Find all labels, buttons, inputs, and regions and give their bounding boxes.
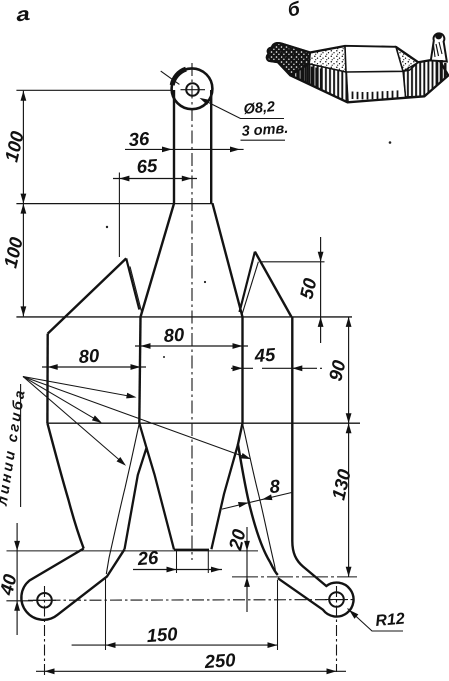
right wing notch fold line — [242, 262, 259, 316]
stray ink specks — [106, 141, 392, 358]
dimension 80 left wing — [42, 364, 146, 370]
left gap cutout right edge — [147, 448, 175, 550]
left foot hole — [33, 593, 56, 608]
flare left edge — [141, 204, 175, 318]
dimension 40 — [6, 523, 33, 635]
dimension text 50 — [295, 275, 320, 300]
dimension text 40 — [0, 571, 21, 597]
left wing long edge — [48, 258, 127, 333]
dimension text 90 — [324, 357, 349, 382]
dimension 50 — [262, 237, 325, 343]
right wing notch edge — [240, 252, 255, 312]
dimension text 26 — [136, 547, 160, 570]
left leg fold line — [106, 423, 139, 574]
sketch front hatched band right — [403, 59, 448, 97]
sketch left stippled panel — [309, 46, 346, 72]
svg-text:26: 26 — [136, 547, 160, 570]
radius callout R12 — [347, 608, 403, 631]
fold lines leader arrows — [23, 377, 252, 468]
view label a — [15, 3, 32, 26]
dimension 250 — [36, 668, 346, 674]
svg-text:45: 45 — [253, 344, 277, 367]
dimension text 80 left — [78, 345, 101, 367]
dimension 26 — [133, 551, 222, 573]
sketch right arm — [431, 33, 447, 62]
svg-text:250: 250 — [203, 649, 237, 672]
dimension text 100 lower — [0, 234, 27, 269]
svg-text:80: 80 — [163, 324, 186, 346]
dimension text 20 — [224, 526, 249, 552]
svg-text:3 отв.: 3 отв. — [241, 121, 289, 140]
dimension 45 — [231, 365, 325, 371]
sketch left arm — [267, 43, 310, 75]
sketch front white face teeth — [353, 90, 398, 99]
tab bottom extension line — [7, 550, 259, 552]
neck right edge — [210, 90, 212, 204]
sketch right stippled panel — [396, 47, 418, 71]
view label b — [286, 0, 302, 21]
fold lines label — [0, 384, 29, 508]
dimension text 250 — [203, 649, 237, 672]
svg-text:36: 36 — [128, 128, 151, 150]
right wing long edge — [255, 252, 292, 317]
top lug circle — [172, 68, 213, 109]
column right edge — [241, 317, 243, 423]
svg-text:150: 150 — [146, 623, 179, 646]
sketch arm hatch strokes — [280, 47, 306, 69]
sketch inner separator lines — [347, 72, 406, 102]
dimension 130 — [232, 423, 357, 577]
top hole — [181, 83, 206, 96]
dimension text 130 — [327, 466, 355, 501]
right leg left edge — [238, 423, 278, 575]
bottom tab edge — [174, 549, 209, 551]
dimension text 45 — [253, 344, 277, 367]
fold line waist 2 — [47, 422, 360, 424]
right leg fold line — [243, 423, 277, 574]
thickness text 8 — [269, 475, 282, 497]
fold line waist 1 — [16, 316, 352, 318]
dimension 65 — [113, 173, 197, 258]
svg-text:80: 80 — [78, 345, 101, 367]
hole callout text d8,2 3 holes — [241, 99, 289, 140]
svg-text:R12: R12 — [375, 610, 406, 630]
dimension text 36 — [128, 128, 151, 150]
left wing left edge — [46, 334, 49, 424]
dimension text 80 center — [163, 324, 186, 346]
svg-text:a: a — [15, 3, 32, 26]
feet axis line — [28, 599, 354, 602]
top extension line — [16, 89, 172, 91]
centerline vertical axis — [191, 63, 193, 560]
right foot hole vertical centerline — [336, 586, 338, 672]
dimension text 100 upper — [0, 128, 28, 163]
dimension 36 — [125, 147, 244, 153]
left leg outer edge — [47, 423, 83, 548]
sketch body outline — [267, 43, 448, 102]
dimension 150 — [72, 577, 278, 650]
svg-text:65: 65 — [136, 155, 159, 177]
dimension text 65 — [136, 155, 159, 177]
neck base line — [16, 203, 213, 205]
dimension chain 100 100 left — [21, 91, 27, 317]
right gap cutout edge — [211, 444, 238, 549]
flare right edge — [213, 204, 243, 318]
hole callout leader — [161, 71, 284, 118]
left wing notch fold line — [130, 267, 142, 317]
radius text R12 — [375, 610, 406, 630]
dimension text 150 — [146, 623, 179, 646]
right outer edge and right foot — [278, 317, 354, 617]
sketch front hatched band left — [290, 64, 348, 103]
neck left edge — [173, 90, 175, 204]
left gap cutout edge — [125, 423, 147, 549]
left wing notch edge — [126, 258, 139, 309]
column left edge — [139, 317, 140, 423]
dimension 90 — [346, 317, 352, 423]
thickness dimension 8 — [222, 492, 293, 509]
left foot — [21, 549, 124, 620]
dimension 20 — [244, 527, 250, 612]
left foot hole vertical centerline — [44, 586, 46, 676]
sketch top face — [345, 46, 403, 72]
svg-text:Ø8,2: Ø8,2 — [243, 99, 276, 118]
sketch band accents — [294, 60, 445, 90]
dimension 80 center — [135, 343, 248, 349]
right foot hole — [325, 592, 348, 607]
